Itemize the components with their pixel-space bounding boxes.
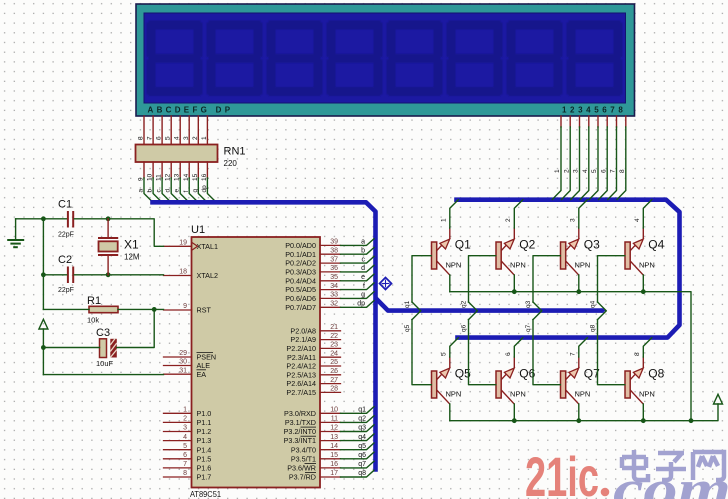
svg-text:R1: R1 — [87, 295, 101, 307]
svg-text:c: c — [362, 256, 366, 263]
display digit 5 (off segments) — [387, 21, 443, 97]
svg-text:5: 5 — [183, 443, 187, 450]
U1 pin 5 (P1.4) stub — [164, 449, 192, 451]
wire Q1 base to q1 bus entry — [412, 256, 431, 311]
svg-text:AT89C51: AT89C51 — [190, 489, 221, 499]
svg-text:8: 8 — [183, 470, 187, 477]
svg-text:NPN: NPN — [510, 389, 526, 398]
svg-text:2: 2 — [192, 136, 199, 140]
display segment pin wire 2 (to RN1) — [197, 116, 199, 145]
U1 pin 30 (ALE) stub — [164, 365, 192, 367]
wire Q5 collector to lower digit bus — [450, 338, 459, 368]
svg-text:P1.0: P1.0 — [197, 409, 212, 418]
RN1 bottom pin 10 wire (net b) — [153, 162, 162, 202]
svg-text:29: 29 — [179, 350, 187, 357]
svg-text:P0.1/AD1: P0.1/AD1 — [285, 250, 316, 259]
svg-text:q3: q3 — [525, 300, 532, 308]
wire Q3 base to q3 bus entry — [533, 256, 560, 311]
svg-text:5: 5 — [440, 352, 447, 356]
crystal X1 — [98, 219, 118, 275]
U1 pin 15 (P3.5/T1) stub — [320, 458, 341, 460]
U1 pin 12 (P3.2/INT0) stub — [320, 431, 341, 433]
svg-text:7: 7 — [569, 352, 576, 356]
wire C3 left — [43, 347, 99, 349]
wire P3.1 to bus (net q2) — [341, 416, 375, 423]
svg-text:q3: q3 — [358, 425, 366, 432]
U1 pin 6 (P1.5) stub — [164, 458, 192, 460]
display digit pin wire 6 (to digit bus) — [599, 116, 608, 200]
resistor network RN1 — [136, 145, 218, 163]
U1 pin 21 (P2.0/A8) stub — [320, 330, 341, 332]
svg-text:34: 34 — [330, 283, 338, 290]
wire emitter rail (Q1-Q4) to right side — [450, 292, 691, 421]
svg-text:C1: C1 — [58, 199, 72, 211]
svg-text:NPN: NPN — [639, 389, 655, 398]
svg-text:38: 38 — [330, 247, 338, 254]
svg-text:P1.2: P1.2 — [197, 427, 212, 436]
wire Q2 base to q2 bus entry — [469, 256, 496, 311]
svg-text:9: 9 — [138, 177, 145, 181]
svg-text:b: b — [361, 247, 365, 254]
XTAL1 clock chevron — [192, 243, 198, 251]
svg-text:26: 26 — [330, 368, 338, 375]
svg-text:12345678: 12345678 — [562, 106, 626, 115]
wire ground to C1 — [16, 218, 67, 220]
power arrow (VCC) right — [714, 394, 723, 404]
RN1 bottom pin 12 wire (net d) — [171, 162, 180, 202]
svg-text:q7: q7 — [525, 324, 532, 332]
capacitor C1 — [68, 211, 73, 228]
RN1 bottom pin 9 wire (net a) — [144, 162, 153, 202]
svg-text:22: 22 — [330, 333, 338, 340]
transistor Q3 — [561, 239, 579, 275]
svg-text:35: 35 — [330, 274, 338, 281]
wire Q8 emitter down to rail — [642, 404, 644, 421]
svg-text:15: 15 — [330, 452, 338, 459]
svg-text:U1: U1 — [191, 224, 205, 236]
svg-text:P3.5/T1: P3.5/T1 — [291, 454, 316, 463]
wire Q5 emitter down to rail — [449, 404, 451, 421]
watermark logo Chinese characters (drawn) — [622, 450, 724, 480]
svg-text:P0.2/AD2: P0.2/AD2 — [285, 259, 316, 268]
svg-text:Q2: Q2 — [519, 238, 535, 252]
svg-text:XTAL2: XTAL2 — [197, 271, 218, 280]
node Q3 emitter junction — [576, 289, 581, 294]
svg-text:2: 2 — [564, 169, 571, 173]
U1 pin 13 (P3.3/INT1) stub — [320, 440, 341, 442]
transistor Q7 — [561, 368, 579, 404]
transistor Q4 — [625, 239, 643, 275]
svg-text:P1.1: P1.1 — [197, 418, 212, 427]
wire C1 to X1 top / XTAL1 — [74, 219, 163, 247]
svg-text:19: 19 — [179, 240, 187, 247]
U1 pin 16 (P3.6/WR) stub — [320, 467, 341, 469]
svg-text:q8: q8 — [358, 470, 366, 477]
transistor Q5 — [432, 368, 450, 404]
display digit 3 (off segments) — [267, 21, 323, 97]
svg-text:XTAL1: XTAL1 — [197, 242, 218, 251]
U1 pin 28 (P2.7/A15) stub — [320, 391, 341, 393]
U1 pin 35 (P0.4/AD4) stub — [320, 280, 341, 282]
svg-text:25: 25 — [330, 359, 338, 366]
overline for PSEN — [197, 352, 214, 354]
display segment pin wire 7 (to RN1) — [152, 116, 154, 145]
svg-text:q4: q4 — [358, 434, 366, 441]
svg-text:P2.0/A8: P2.0/A8 — [290, 326, 316, 335]
svg-text:16: 16 — [201, 173, 208, 181]
svg-text:e: e — [361, 274, 365, 281]
svg-text:P3.2/INT0: P3.2/INT0 — [284, 427, 316, 436]
display digit pin wire 5 (to digit bus) — [589, 116, 598, 200]
svg-text:12M: 12M — [124, 253, 140, 262]
svg-text:Q3: Q3 — [584, 238, 600, 252]
wire VCC to EA — [43, 374, 163, 376]
U1 pin 39 (P0.0/AD0) stub — [320, 244, 341, 246]
svg-text:Q8: Q8 — [648, 367, 664, 381]
display digit 6 (off segments) — [447, 21, 503, 97]
wire P3.0 to bus (net q1) — [341, 407, 375, 414]
svg-text:31: 31 — [179, 367, 187, 374]
svg-text:C3: C3 — [96, 327, 110, 339]
svg-text:12: 12 — [330, 425, 338, 432]
svg-text:4: 4 — [183, 434, 187, 441]
wire C3 right to RST node — [117, 309, 154, 347]
wire P0.7 to bus (net dp) — [341, 301, 375, 308]
bus: digit-select loop (top, right, lower) — [457, 200, 680, 338]
wire Q4 base to q4 bus entry — [598, 256, 625, 311]
svg-text:q1: q1 — [358, 407, 366, 414]
svg-text:6: 6 — [156, 136, 163, 140]
svg-text:a: a — [361, 239, 365, 246]
wire P0.4 to bus (net e) — [341, 274, 375, 281]
U1 pin 10 (P3.0/RXD) stub — [320, 412, 341, 414]
svg-text:3: 3 — [183, 136, 190, 140]
svg-text:NPN: NPN — [639, 260, 655, 269]
node Q6 emitter junction — [512, 418, 517, 423]
svg-text:22pF: 22pF — [58, 287, 74, 294]
wire P3.4 to bus (net q5) — [341, 443, 375, 450]
wire P0.2 to bus (net c) — [341, 256, 375, 263]
node C3 left junction — [41, 345, 46, 350]
U1 pin 36 (P0.3/AD3) stub — [320, 271, 341, 273]
svg-text:8: 8 — [138, 136, 145, 140]
node C2 left junction — [41, 272, 46, 277]
U1 pin 22 (P2.1/A9) stub — [320, 339, 341, 341]
RN1 bottom pin 11 wire (net c) — [162, 162, 171, 202]
svg-text:P2.7/A15: P2.7/A15 — [286, 388, 316, 397]
svg-text:Q1: Q1 — [455, 238, 471, 252]
U1 pin 2 (P1.1) stub — [164, 421, 192, 423]
wire Q6 base to q6 bus entry — [469, 311, 496, 385]
svg-text:g: g — [192, 189, 199, 193]
wire Q1 collector to digit bus — [450, 200, 459, 239]
svg-text:16: 16 — [330, 461, 338, 468]
wire P3.5 to bus (net q6) — [341, 452, 375, 459]
svg-text:15: 15 — [192, 173, 199, 181]
wire P0.3 to bus (net d) — [341, 265, 375, 272]
U1 pin 38 (P0.1/AD1) stub — [320, 253, 341, 255]
svg-text:P3.6/WR: P3.6/WR — [287, 464, 316, 473]
U1 pin 24 (P2.3/A11) stub — [320, 356, 341, 358]
svg-text:q2: q2 — [461, 300, 468, 308]
svg-text:27: 27 — [330, 377, 338, 384]
overline for INT0 — [301, 426, 317, 428]
transistor Q8 — [625, 368, 643, 404]
svg-text:39: 39 — [330, 239, 338, 246]
wire Q3 emitter down to rail — [578, 275, 580, 292]
capacitor C3 (polarized 10uF) — [100, 339, 117, 358]
wire Q6 collector to lower digit bus — [514, 338, 523, 368]
U1 pin 19 (XTAL1) stub — [164, 245, 192, 247]
U1 pin 4 (P1.3) stub — [164, 440, 192, 442]
svg-text:g: g — [361, 292, 365, 299]
svg-text:P0.4/AD4: P0.4/AD4 — [285, 276, 316, 285]
svg-text:10: 10 — [147, 173, 154, 181]
svg-text:6: 6 — [601, 169, 608, 173]
svg-text:3: 3 — [183, 425, 187, 432]
svg-text:NPN: NPN — [446, 260, 462, 269]
U1 pin 9 (RST) stub — [164, 309, 192, 311]
svg-text:NPN: NPN — [575, 260, 591, 269]
svg-text:23: 23 — [330, 342, 338, 349]
bus: q-net horizontal branch — [377, 300, 602, 311]
svg-text:12: 12 — [165, 173, 172, 181]
transistor Q2 — [496, 239, 514, 275]
RN1 bottom pin 13 wire (net e) — [180, 162, 189, 202]
svg-text:P0.6/AD6: P0.6/AD6 — [285, 294, 316, 303]
node Q4 emitter junction — [641, 289, 646, 294]
wire Q4 collector to digit bus — [643, 200, 652, 239]
U1 pin 14 (P3.4/T0) stub — [320, 449, 341, 451]
svg-text:NPN: NPN — [446, 389, 462, 398]
svg-text:Q4: Q4 — [648, 238, 664, 252]
svg-text:d: d — [165, 189, 172, 193]
svg-text:10uF: 10uF — [96, 359, 114, 368]
display digit 4 (off segments) — [327, 21, 383, 97]
wire Q7 collector to lower digit bus — [579, 338, 588, 368]
svg-text:14: 14 — [183, 173, 190, 181]
wire emitter rail (Q5-Q8) to VCC arrow — [450, 404, 718, 421]
svg-text:d: d — [361, 265, 365, 272]
svg-text:P0.0/AD0: P0.0/AD0 — [285, 241, 316, 250]
svg-text:8: 8 — [634, 352, 641, 356]
RN1 bottom pin 16 wire (net dp) — [207, 162, 216, 202]
svg-text:P2.2/A10: P2.2/A10 — [286, 344, 316, 353]
display digit 2 (off segments) — [207, 21, 263, 97]
wire C2 row vertical from C1 row — [42, 219, 44, 310]
svg-text:1: 1 — [440, 218, 447, 222]
svg-text:dp: dp — [201, 185, 208, 193]
wire P0.0 to bus (net a) — [341, 239, 375, 246]
U1 pin 3 (P1.2) stub — [164, 431, 192, 433]
U1 pin 1 (P1.0) stub — [164, 412, 192, 414]
U1 pin 27 (P2.6/A14) stub — [320, 383, 341, 385]
svg-text:32: 32 — [330, 301, 338, 308]
bus port diamond marker — [380, 278, 392, 290]
transistor Q1 — [432, 239, 450, 275]
U1 pin 33 (P0.6/AD6) stub — [320, 297, 341, 299]
svg-text:P1.6: P1.6 — [197, 464, 212, 473]
wire Q7 base to q7 bus entry — [533, 311, 560, 385]
svg-text:1: 1 — [201, 136, 208, 140]
svg-text:36: 36 — [330, 265, 338, 272]
svg-text:q2: q2 — [358, 416, 366, 423]
wire P3.7 to bus (net q8) — [341, 470, 375, 477]
svg-text:EA: EA — [197, 370, 207, 379]
svg-text:3: 3 — [573, 169, 580, 173]
svg-text:P2.5/A13: P2.5/A13 — [286, 370, 316, 379]
wire Q2 emitter down to rail — [513, 275, 515, 292]
svg-text:33: 33 — [330, 292, 338, 299]
svg-text:30: 30 — [179, 359, 187, 366]
wire P0.1 to bus (net b) — [341, 248, 375, 255]
U1 pin 23 (P2.2/A10) stub — [320, 347, 341, 349]
svg-text:2: 2 — [505, 218, 512, 222]
display segment pin wire 6 (to RN1) — [161, 116, 163, 145]
svg-text:e: e — [174, 189, 181, 193]
svg-text:P2.3/A11: P2.3/A11 — [287, 353, 316, 362]
node rail joint junction — [689, 418, 694, 423]
capacitor C2 — [68, 267, 73, 284]
wire P3.3 to bus (net q4) — [341, 434, 375, 441]
svg-text:4: 4 — [634, 218, 641, 222]
svg-text:q8: q8 — [590, 324, 597, 332]
node RST junction — [152, 307, 157, 312]
svg-text:5: 5 — [165, 136, 172, 140]
svg-text:P0.3/AD3: P0.3/AD3 — [285, 268, 316, 277]
svg-text:17: 17 — [330, 470, 338, 477]
bus: segment bus from RN1 to MCU P0 (horizontal then vertical) — [153, 202, 376, 469]
svg-text:RST: RST — [197, 306, 212, 315]
display digit pin wire 8 (to digit bus) — [617, 116, 626, 200]
svg-text:NPN: NPN — [575, 389, 591, 398]
svg-text:P1.5: P1.5 — [197, 454, 212, 463]
watermark logo 21ic — [525, 445, 609, 499]
svg-text:q6: q6 — [358, 452, 366, 459]
transistor Q6 — [496, 368, 514, 404]
svg-text:4: 4 — [582, 169, 589, 173]
overline for RD — [305, 472, 316, 474]
wire P0.6 to bus (net g) — [341, 292, 375, 299]
node Q7 emitter junction — [576, 418, 581, 423]
display segment pin wire 5 (to RN1) — [170, 116, 172, 145]
svg-text:6: 6 — [183, 452, 187, 459]
display digit pin wire 1 (to digit bus) — [552, 116, 561, 200]
svg-text:ABCDEFG DP: ABCDEFG DP — [148, 106, 234, 115]
RN1 bottom pin 15 wire (net g) — [198, 162, 207, 202]
svg-text:dp: dp — [357, 301, 365, 308]
svg-text:14: 14 — [330, 443, 338, 450]
wire C2 left — [43, 274, 66, 276]
node X1 bottom junction — [106, 272, 111, 277]
svg-text:8: 8 — [619, 169, 626, 173]
wire P3.2 to bus (net q3) — [341, 425, 375, 432]
svg-text:21: 21 — [330, 324, 338, 331]
display digit 7 (off segments) — [507, 21, 563, 97]
U1 pin 7 (P1.6) stub — [164, 467, 192, 469]
svg-text:5: 5 — [591, 169, 598, 173]
svg-text:q7: q7 — [358, 461, 366, 468]
overline for INT1 — [301, 435, 317, 437]
U1 pin 11 (P3.1/TXD) stub — [320, 421, 341, 423]
wire Q5 base to q5 bus entry — [412, 311, 431, 385]
overline for WR — [305, 463, 317, 465]
svg-text:f: f — [183, 191, 190, 193]
svg-text:q4: q4 — [590, 300, 597, 308]
U1 pin 18 (XTAL2) stub — [164, 275, 192, 277]
power arrow (VCC) left — [39, 319, 48, 374]
node C1 left junction — [41, 216, 46, 221]
svg-text:X1: X1 — [124, 238, 139, 252]
U1 pin 17 (P3.7/RD) stub — [320, 476, 341, 478]
wire Q1 emitter down to rail — [449, 275, 451, 292]
svg-text:P2.1/A9: P2.1/A9 — [290, 335, 316, 344]
node Q8 emitter junction — [641, 418, 646, 423]
svg-text:18: 18 — [179, 269, 187, 276]
svg-text:NPN: NPN — [510, 260, 526, 269]
U1 pin 32 (P0.7/AD7) stub — [320, 306, 341, 308]
display segment pin wire 3 (to RN1) — [188, 116, 190, 145]
display digit 8 (off segments) — [567, 21, 623, 97]
svg-text:7: 7 — [183, 461, 187, 468]
svg-text:P1.3: P1.3 — [197, 436, 212, 445]
svg-text:ALE: ALE — [197, 361, 211, 370]
svg-text:13: 13 — [174, 173, 181, 181]
display segment pin wire 4 (to RN1) — [179, 116, 181, 145]
svg-text:13: 13 — [330, 434, 338, 441]
svg-text:q5: q5 — [358, 443, 366, 450]
U1 pin 29 (PSEN) stub — [164, 356, 192, 358]
wire Q3 collector to digit bus — [579, 200, 588, 239]
svg-text:10: 10 — [330, 407, 338, 414]
U1 pin 25 (P2.4/A12) stub — [320, 365, 341, 367]
svg-text:9: 9 — [183, 303, 187, 310]
U1 pin 8 (P1.7) stub — [164, 476, 192, 478]
display segment pin wire 8 (to RN1) — [143, 116, 145, 145]
U1 pin 31 (EA) stub — [164, 373, 192, 375]
svg-text:11: 11 — [156, 174, 163, 181]
svg-text:21ic: 21ic — [525, 445, 599, 499]
U1 pin 34 (P0.5/AD5) stub — [320, 289, 341, 291]
svg-text:1: 1 — [554, 169, 561, 173]
svg-text:1: 1 — [183, 407, 187, 414]
svg-text:q1: q1 — [404, 300, 411, 308]
svg-text:f: f — [363, 283, 365, 290]
display digit pin wire 4 (to digit bus) — [580, 116, 589, 200]
wire R1 left — [43, 308, 89, 310]
svg-text:b: b — [147, 189, 154, 193]
svg-text:P3.3/INT1: P3.3/INT1 — [284, 436, 316, 445]
svg-text:q6: q6 — [461, 324, 468, 332]
resistor R1 — [89, 306, 118, 312]
svg-text:RN1: RN1 — [224, 146, 246, 158]
svg-text:P0.7/AD7: P0.7/AD7 — [285, 303, 316, 312]
svg-text:37: 37 — [330, 256, 338, 263]
svg-text:24: 24 — [330, 350, 338, 357]
svg-text:6: 6 — [505, 352, 512, 356]
U1 pin 26 (P2.5/A13) stub — [320, 374, 341, 376]
wire P0.5 to bus (net f) — [341, 283, 375, 290]
display digit pin wire 3 (to digit bus) — [571, 116, 580, 200]
svg-text:7: 7 — [147, 136, 154, 140]
node X1 top junction — [106, 216, 111, 221]
display digit pin wire 2 (to digit bus) — [562, 116, 571, 200]
svg-text:28: 28 — [330, 386, 338, 393]
wire Q6 emitter down to rail — [513, 404, 515, 421]
wire Q8 collector to lower digit bus — [643, 338, 652, 368]
svg-text:P2.4/A12: P2.4/A12 — [286, 362, 316, 371]
ground — [7, 219, 24, 247]
